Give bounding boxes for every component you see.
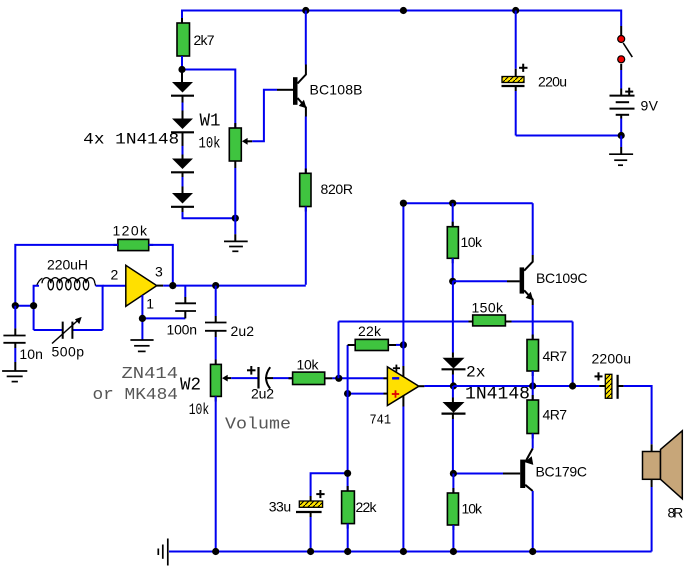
wire: BC108B emitter to 820R xyxy=(305,117,307,174)
svg-text:4R7: 4R7 xyxy=(543,348,568,364)
wire: 2u2 to 10k input resistor xyxy=(273,377,293,379)
node top rail / 220u branch xyxy=(512,7,519,14)
wire: link from tank to 10n node xyxy=(15,305,33,307)
svg-text:Volume: Volume xyxy=(225,416,291,435)
inductor 220uH xyxy=(37,257,96,290)
wire: W1 wiper to BC108B base xyxy=(252,90,277,142)
svg-text:8R: 8R xyxy=(668,505,684,521)
svg-text:4x 1N4148: 4x 1N4148 xyxy=(83,131,179,149)
svg-text:2: 2 xyxy=(111,267,119,283)
svg-text:220u: 220u xyxy=(538,74,567,90)
wire: feedback vertical to 150k row xyxy=(338,322,340,379)
svg-text:2x: 2x xyxy=(466,364,486,382)
svg-text:220uH: 220uH xyxy=(47,257,88,273)
capacitor 220u xyxy=(502,11,568,136)
node tank left leg xyxy=(30,302,37,309)
ground below W1 xyxy=(224,218,248,251)
svg-text:120k: 120k xyxy=(113,223,149,239)
resistor 10k input xyxy=(289,357,333,385)
wire: base row to BC109C xyxy=(453,280,520,282)
node V+ branch xyxy=(400,200,407,207)
resistor 2k7 xyxy=(177,18,215,61)
wire: 120k right leg down to output node xyxy=(149,245,173,285)
wire: tank to ZN414 input pin 2 xyxy=(103,285,126,287)
resistor 150k xyxy=(339,300,573,326)
svg-text:9V: 9V xyxy=(641,98,659,114)
node 33u / 22k xyxy=(344,470,351,477)
node rail / 10k xyxy=(450,548,457,555)
node rail / W2 xyxy=(212,548,219,555)
transistor Q1 BC108B xyxy=(277,65,363,117)
potentiometer W2 10k volume xyxy=(180,360,231,420)
wire: +9V top rail xyxy=(182,11,621,27)
ground left end xyxy=(158,539,168,566)
wire: +9V branch row xyxy=(403,202,532,204)
wire: 22k right to V+ line xyxy=(396,344,403,346)
wire: BC109C emitter to 4R7 xyxy=(532,305,534,340)
node 22k / V+ line xyxy=(400,341,407,348)
wire: BC179C collector to rail xyxy=(532,491,534,552)
battery 9V xyxy=(610,88,659,136)
ground below 10n xyxy=(2,371,27,382)
node 741 output / diodes xyxy=(450,382,457,389)
svg-text:10k: 10k xyxy=(297,357,320,373)
node top rail / 741 V+ branch xyxy=(400,7,407,14)
node inverting input xyxy=(335,375,342,382)
node BC109C base xyxy=(449,278,456,285)
svg-text:22k: 22k xyxy=(356,499,378,515)
diode D1 1N4148 xyxy=(171,82,194,119)
wire: 220u bottom to battery minus xyxy=(516,135,622,137)
resistor 4R7 lower xyxy=(527,386,567,449)
wire: ZN414 pin1 to ground and 100n xyxy=(142,295,185,339)
wire: output row to speaker cap xyxy=(453,385,599,387)
svg-text:150k: 150k xyxy=(472,300,505,316)
wire: LC tank left leg xyxy=(34,286,39,330)
node 120k/10n xyxy=(12,302,19,309)
svg-text:100n: 100n xyxy=(167,322,198,338)
node rail / 22k xyxy=(344,548,351,555)
svg-text:BC108B: BC108B xyxy=(310,82,363,98)
svg-text:10k: 10k xyxy=(462,501,484,517)
svg-text:2k7: 2k7 xyxy=(194,32,215,48)
capacitor 2u2 electrolytic xyxy=(247,366,274,402)
svg-text:2u2: 2u2 xyxy=(231,323,255,339)
resistor 820R xyxy=(300,169,353,212)
diode D4 1N4148 xyxy=(171,193,194,207)
diode D5 1N4148 xyxy=(442,353,466,387)
resistor 22k feedback xyxy=(348,323,396,351)
node output/volume branch xyxy=(212,282,219,289)
speaker 8R xyxy=(643,431,684,521)
svg-text:2u2: 2u2 xyxy=(251,386,274,402)
node diode chain / W1 bottom / ground xyxy=(232,215,239,222)
wire: 741 output xyxy=(419,385,454,387)
resistor 4R7 upper xyxy=(527,335,567,387)
ground below ZN414 xyxy=(130,340,153,351)
capacitor 2200u xyxy=(592,351,632,399)
wire: LC tank right leg xyxy=(96,286,103,330)
wire: W2 bottom to ground rail xyxy=(215,396,217,551)
node output/120k xyxy=(169,282,176,289)
wire: 10k to 741 inverting input xyxy=(332,377,383,379)
op-amp U1 ZN414 xyxy=(111,264,164,312)
svg-text:10k: 10k xyxy=(199,135,221,153)
capacitor 100n xyxy=(167,286,198,338)
node 150k leg xyxy=(569,382,576,389)
diode D6 1N4148 xyxy=(442,386,466,474)
svg-text:W1: W1 xyxy=(200,112,221,132)
node rail / BC179C xyxy=(529,548,536,555)
switch S1 xyxy=(618,26,633,63)
svg-text:10k: 10k xyxy=(189,401,210,419)
wire: 2200u to speaker xyxy=(624,386,652,444)
potentiometer W1 10k xyxy=(229,123,252,218)
node rail / 33u xyxy=(307,548,314,555)
node BC179C base / diode bottom xyxy=(450,470,457,477)
svg-text:BC179C: BC179C xyxy=(536,464,588,480)
capacitor 10n xyxy=(3,306,43,371)
svg-text:1N4148: 1N4148 xyxy=(465,385,530,405)
wire: 22k left chain vertical xyxy=(347,345,349,491)
wire: detector output row xyxy=(157,285,306,287)
diode D2 1N4148 xyxy=(171,119,194,159)
wire: bias chain vertical to diodes xyxy=(452,281,454,352)
ground below battery xyxy=(609,136,633,166)
wire: switch to battery xyxy=(620,64,622,70)
svg-text:22k: 22k xyxy=(358,323,382,339)
node battery minus / ground xyxy=(618,132,625,139)
svg-text:4R7: 4R7 xyxy=(543,407,568,423)
svg-text:ZN414: ZN414 xyxy=(122,365,179,384)
wire: ground rail xyxy=(169,551,652,553)
svg-text:W2: W2 xyxy=(180,376,201,396)
diode D3 1N4148 xyxy=(171,159,194,194)
wire: 120k left leg down to 10n node xyxy=(15,245,118,306)
wire: W2 wiper to 2u2 electrolytic xyxy=(231,377,257,379)
svg-text:1: 1 xyxy=(146,296,154,312)
wire: 741 V- to ground rail xyxy=(402,395,404,406)
wire: 741 V+ from +9V node xyxy=(402,203,404,366)
svg-text:10k: 10k xyxy=(461,234,484,250)
wire: BC109C collector to V+ row xyxy=(532,203,534,255)
capacitor 2u2 coupling xyxy=(205,286,254,360)
resistor 22k lower xyxy=(342,486,378,552)
svg-text:or MK484: or MK484 xyxy=(93,386,179,405)
wire: BC179C base row xyxy=(453,473,520,475)
svg-text:500p: 500p xyxy=(52,344,85,360)
node pin1/100n xyxy=(139,315,146,322)
resistor 120k xyxy=(113,223,154,251)
svg-text:33u: 33u xyxy=(269,499,292,515)
wire: 820R bottom down to detector output row xyxy=(305,207,307,285)
node rail / 741 V- xyxy=(400,548,407,555)
wire: BC108B collector to rail xyxy=(305,11,307,65)
svg-text:741: 741 xyxy=(370,413,392,429)
wire: speaker bottom to rail xyxy=(651,487,653,552)
svg-text:10n: 10n xyxy=(19,346,43,362)
resistor 10k lower xyxy=(447,474,483,552)
svg-text:3: 3 xyxy=(155,264,163,280)
wire: diode chain bottom to W1 bottom xyxy=(182,207,184,212)
variable capacitor 500p xyxy=(52,317,85,360)
svg-text:820R: 820R xyxy=(321,181,354,197)
node top rail / BC108B collector xyxy=(302,7,309,14)
node 4R7 junction xyxy=(529,382,536,389)
wire: 2k7 bottom to diode chain and W1 top xyxy=(182,56,235,128)
wire: non-inverting input row xyxy=(348,393,384,395)
capacitor 33u xyxy=(269,473,348,551)
wire: 150k right leg down to output node xyxy=(572,322,574,387)
transistor Q2 BC109C xyxy=(520,255,588,305)
resistor 10k bias xyxy=(447,203,483,281)
transistor Q3 BC179C xyxy=(520,449,587,492)
node 2k7 / diode chain / W1 xyxy=(178,66,185,73)
svg-text:BC109C: BC109C xyxy=(536,270,588,286)
node 10k bias top xyxy=(449,200,456,207)
wire: tank bottom row left xyxy=(34,329,62,331)
node non-inverting input xyxy=(344,390,351,397)
svg-text:2200u: 2200u xyxy=(592,351,632,367)
op-amp U2 741 xyxy=(370,365,419,429)
wire: tank bottom row right xyxy=(73,329,103,331)
